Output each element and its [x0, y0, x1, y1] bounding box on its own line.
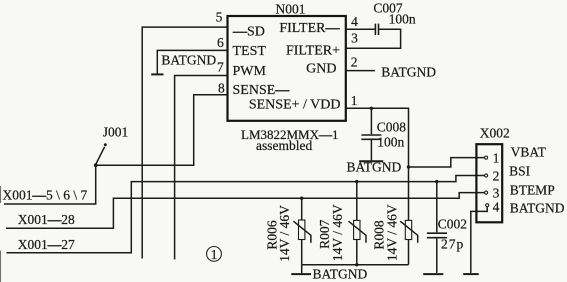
svg-text:J001: J001	[103, 124, 129, 139]
svg-text:14V / 46V: 14V / 46V	[330, 204, 345, 261]
svg-text:1: 1	[211, 248, 218, 263]
svg-text:FILTER+: FILTER+	[286, 44, 340, 59]
svg-text:PWM: PWM	[233, 64, 267, 79]
svg-text:C008: C008	[377, 119, 407, 134]
svg-text:7: 7	[217, 60, 224, 75]
svg-text:8: 8	[218, 81, 225, 96]
svg-text:FILTER—: FILTER—	[279, 21, 340, 36]
svg-text:—SD: —SD	[232, 25, 265, 40]
svg-text:C002: C002	[438, 217, 467, 232]
svg-text:100n: 100n	[377, 135, 404, 150]
svg-text:5: 5	[216, 9, 223, 24]
svg-text:BATGND: BATGND	[510, 200, 565, 215]
svg-text:3: 3	[351, 30, 358, 45]
svg-text:BSI: BSI	[509, 164, 531, 179]
svg-text:SENSE—: SENSE—	[233, 83, 291, 98]
svg-text:100n: 100n	[389, 12, 416, 27]
svg-text:2: 2	[493, 168, 500, 183]
svg-text:BATGND: BATGND	[381, 64, 436, 79]
svg-text:X001—27: X001—27	[18, 237, 75, 252]
svg-text:TEST: TEST	[233, 44, 267, 59]
svg-text:4: 4	[351, 14, 358, 29]
svg-text:3: 3	[493, 185, 500, 200]
svg-text:14V / 46V: 14V / 46V	[384, 204, 399, 261]
svg-text:SENSE+ / VDD: SENSE+ / VDD	[249, 98, 341, 113]
svg-text:6: 6	[217, 35, 224, 50]
svg-text:X001—5 \ 6 \ 7: X001—5 \ 6 \ 7	[3, 187, 88, 202]
svg-text:4: 4	[493, 199, 500, 214]
svg-text:BATGND: BATGND	[161, 52, 216, 67]
svg-text:BTEMP: BTEMP	[510, 182, 555, 197]
svg-text:BATGND: BATGND	[313, 267, 368, 282]
svg-text:2: 2	[351, 55, 358, 70]
svg-text:GND: GND	[306, 61, 336, 76]
svg-text:27p: 27p	[441, 237, 464, 252]
svg-text:1: 1	[493, 150, 500, 165]
svg-text:N001: N001	[276, 2, 306, 17]
svg-text:1: 1	[351, 93, 358, 108]
svg-text:X002: X002	[480, 125, 510, 140]
svg-text:X001—28: X001—28	[18, 212, 75, 227]
svg-text:BATGND: BATGND	[347, 159, 402, 174]
svg-text:assembled: assembled	[256, 138, 312, 153]
svg-text:14V / 46V: 14V / 46V	[277, 205, 292, 262]
svg-text:VBAT: VBAT	[511, 145, 547, 160]
